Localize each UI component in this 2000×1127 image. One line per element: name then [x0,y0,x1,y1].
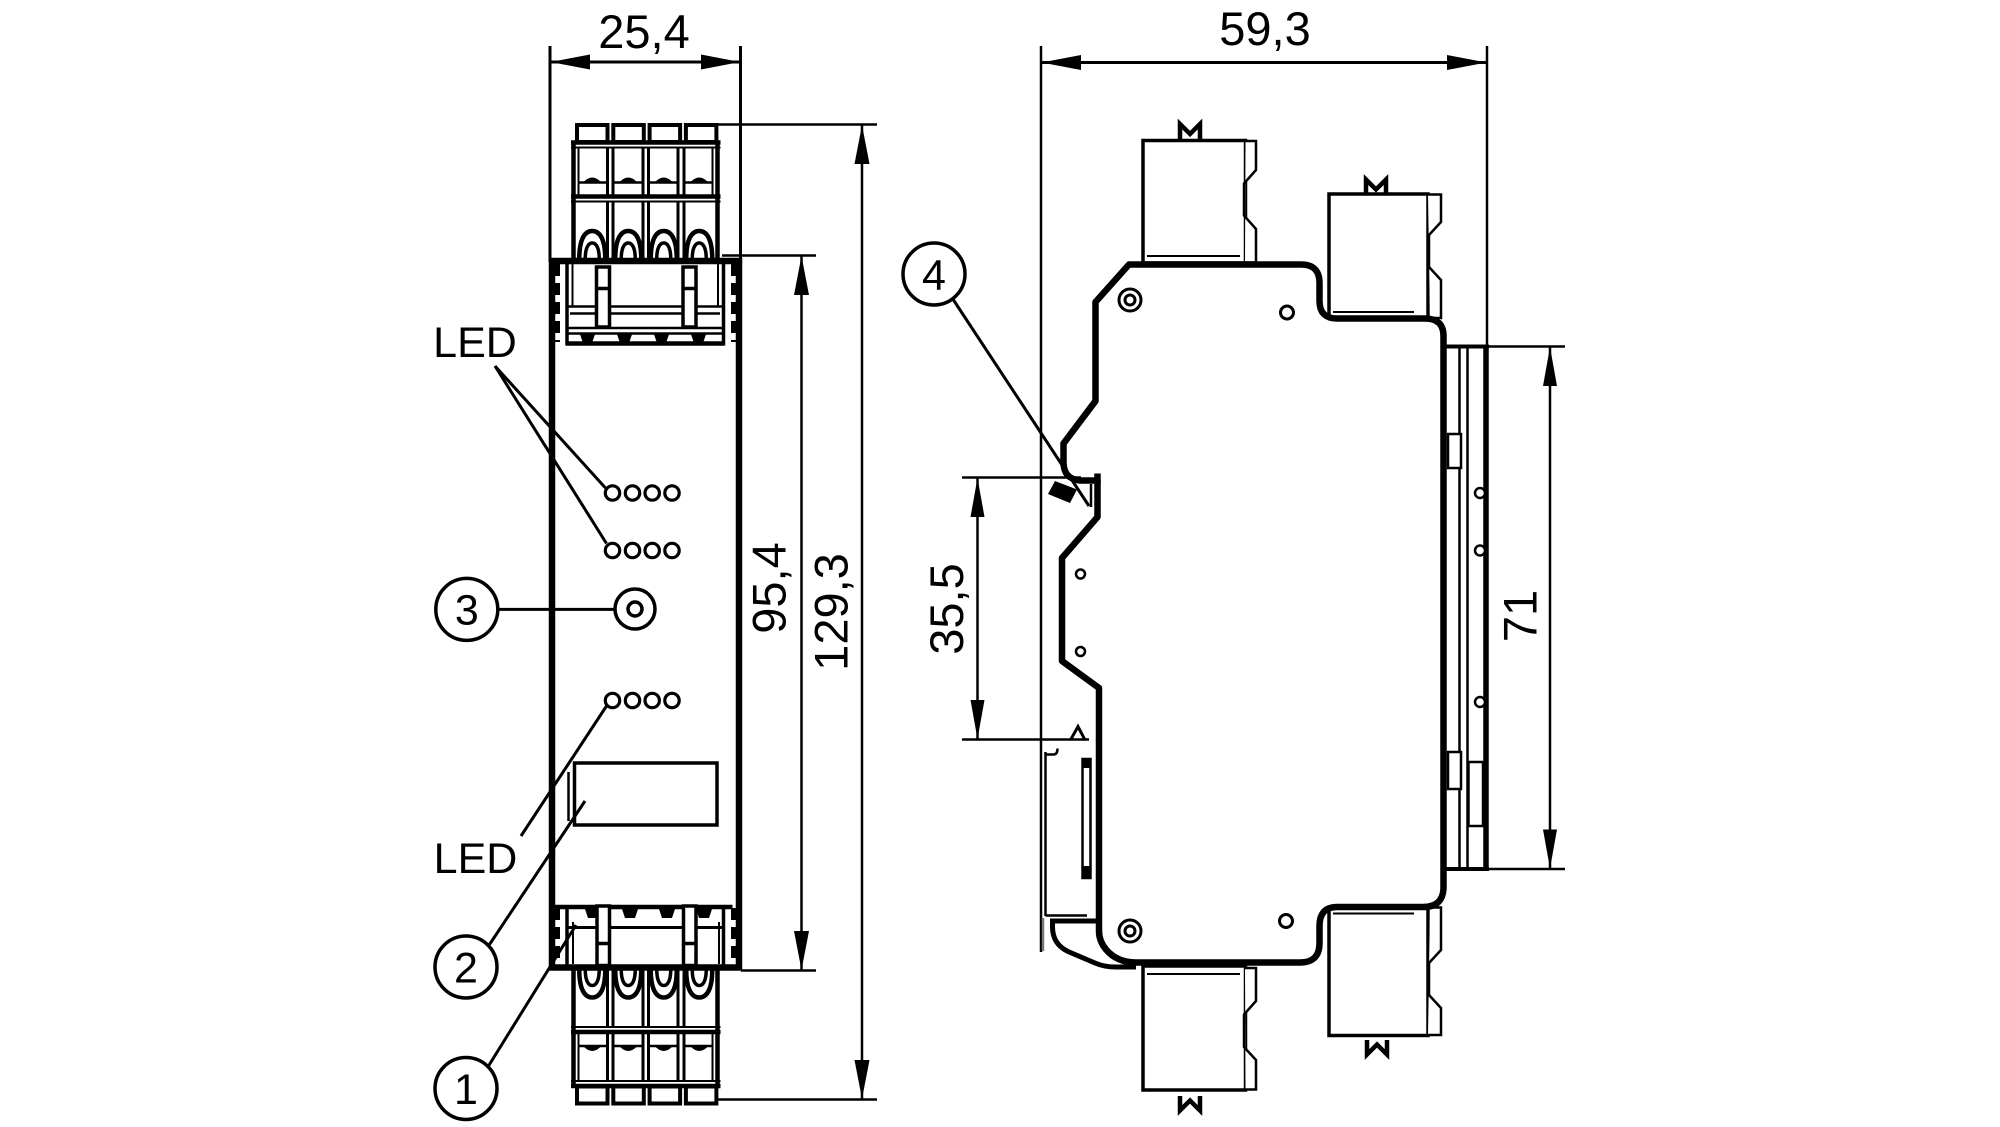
svg-text:25,4: 25,4 [598,5,689,58]
plate rivet bumps [1475,488,1485,498]
dimension 129,3 bottom extension line [714,1098,877,1101]
leader 2 to label field [490,801,586,945]
movable clip bottom line [1046,914,1088,917]
dimension 129,3 dimension line [861,125,864,1100]
svg-text:4: 4 [922,252,946,300]
svg-text:LED: LED [433,319,517,367]
dimension 35,5 top arrowhead [971,478,985,517]
dimension 71 top extension line [1443,345,1565,348]
housing hole bottom right [1280,915,1293,928]
LED row 1 [605,486,619,500]
terminal cap row [577,125,608,142]
svg-text:129,3: 129,3 [805,553,858,671]
clip hole lower [1076,647,1085,656]
movable clip top bracket [1046,749,1058,755]
svg-text:3: 3 [455,587,479,635]
terminal block outer walls [571,141,576,260]
dimension 35,5 top extension line [962,476,1081,479]
svg-text:71: 71 [1494,590,1547,642]
screw slot mark M inverted (lower-left block) [1180,1096,1200,1111]
dimension 95,4 bottom extension line [741,969,816,972]
LED row 2 [605,543,619,557]
plate notch lower [1448,752,1461,789]
dimension 59,3 left extension line [1040,46,1043,952]
clip hole upper [1076,570,1085,579]
lower-right terminal block (side view) [1329,907,1441,1055]
clamp shelf lines and domes [579,181,607,184]
dimension 71 dimension line [1549,347,1552,870]
dimension 59,3 right extension line [1486,46,1489,348]
movable clip slot [1083,759,1091,878]
dimension 129,3 top arrowhead [855,125,870,164]
dimension 95,4 bottom arrowhead [794,931,809,970]
rear mounting plate edge-on [1448,347,1486,869]
label field rectangle [575,763,718,825]
terminal block top rail [571,140,721,145]
dimension 95,4 dimension line [800,256,803,971]
test button / adjuster [615,589,655,629]
module body front view [552,261,739,968]
top terminal block (front view) [571,125,721,259]
dimension 25,4 dimension line [550,61,741,64]
dimension 35,5 dimension line [976,478,979,740]
bottom plug socket inside body [555,905,734,966]
screw slot mark M inverted (lower-right block) [1367,1040,1387,1055]
plate slot rectangle [1469,762,1484,826]
LED row 3 [605,693,619,707]
module body side view outline with DIN-rail notch [1062,265,1444,963]
dimension 95,4 top extension line [722,254,816,257]
screw slot mark M (upper-left block) [1180,124,1200,140]
DIN-rail catch tooth [1048,481,1077,503]
leader 4 to DIN notch [953,299,1090,507]
housing screw top [1119,289,1141,311]
housing screw bottom [1119,920,1141,942]
lower-left terminal block (side view) [1143,966,1256,1111]
label field inner left line [567,772,570,821]
svg-text:1: 1 [454,1066,478,1114]
dimension 129,3 bottom arrowhead [855,1060,870,1099]
upper-left terminal block (side view) [1143,124,1256,263]
leader LED to row 2 [495,366,607,544]
terminal block mid rail [571,194,721,199]
leader 3 to button [498,608,615,611]
leader LED to row 3 [521,706,607,836]
movable clip lower flange curve [1053,919,1137,968]
dimension 35,5 bottom extension line [962,738,1089,741]
dimension 71 top arrowhead [1543,347,1557,386]
movable clip left edge [1044,752,1047,916]
dimension 25,4 left extension line [549,46,552,262]
dimension 71 bottom arrowhead [1543,830,1557,869]
svg-text:LED: LED [434,835,518,883]
callout circle 3 [436,578,498,640]
housing hole top right [1281,306,1294,319]
callout circle 4 [903,243,965,305]
clip spring caret [1071,727,1086,741]
clip guide tick [1042,918,1045,951]
dimension 59,3 right arrowhead [1447,55,1487,70]
dimension 35,5 bottom arrowhead [971,700,985,739]
dimension 25,4 right extension line [739,46,742,262]
svg-text:59,3: 59,3 [1219,2,1310,55]
leader 1 to bottom socket [489,925,577,1066]
terminal block lower cell walls [606,202,609,259]
svg-text:95,4: 95,4 [743,542,796,633]
dimension 95,4 top arrowhead [794,256,809,295]
dimension 59,3 dimension line [1041,61,1487,64]
callout circle 2 [435,936,497,998]
dimension 25,4 left arrowhead [551,55,591,70]
dimension 129,3 top extension line [713,123,877,126]
bottom terminal block (mirrored front view) [571,970,721,1104]
movable clip bottom bar [1053,919,1097,924]
screw slot mark M (upper-right block) [1366,180,1386,196]
DIN-rail catch inner line [1090,484,1093,507]
upper-right terminal block (side view) [1329,180,1441,319]
dimension 71 bottom extension line [1443,868,1565,871]
svg-text:2: 2 [454,945,478,993]
screw funnel arches [579,231,605,259]
top plug socket inside body [557,262,734,346]
DIN-rail catch nub [1094,474,1101,484]
callout circle 1 [435,1058,497,1120]
terminal block upper cell walls [606,148,609,197]
plate notch upper [1448,434,1461,468]
dimension 59,3 left arrowhead [1042,55,1082,70]
dimension 25,4 right arrowhead [701,55,740,70]
svg-text:35,5: 35,5 [920,563,973,654]
leader LED to row 1 [495,366,606,488]
